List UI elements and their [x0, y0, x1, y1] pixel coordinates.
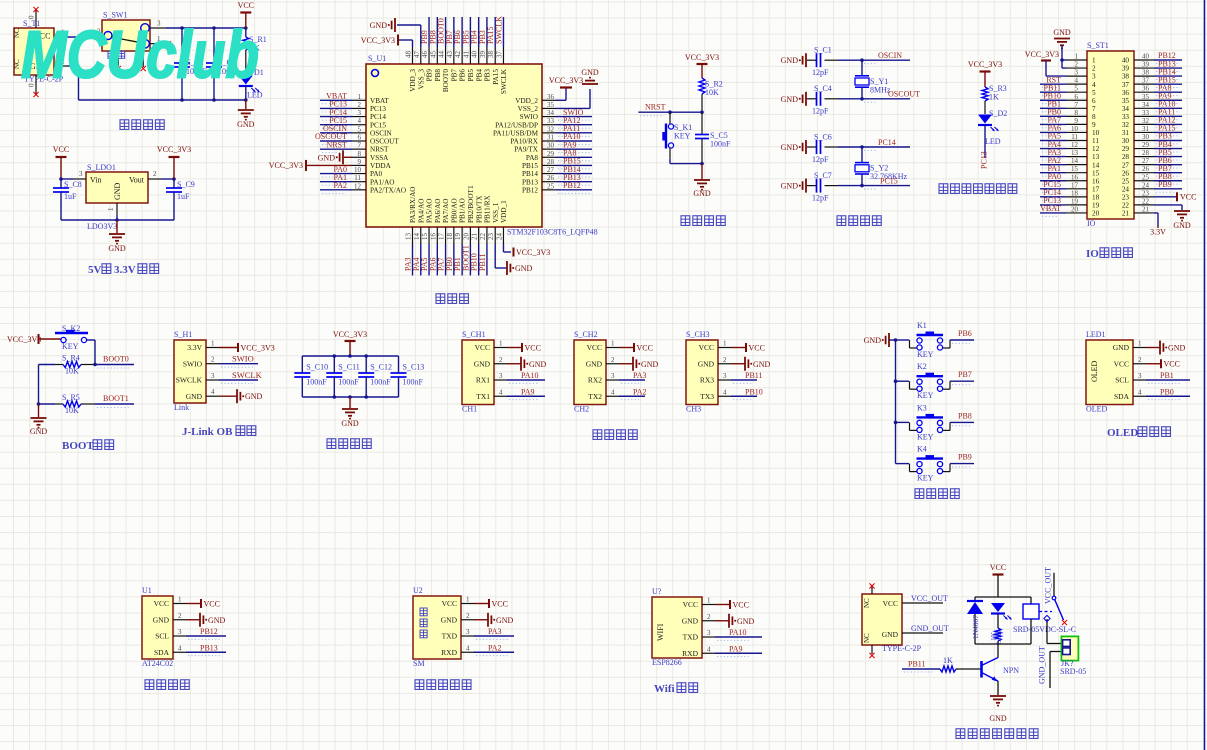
- pin U1 4: [173, 644, 186, 652]
- svg-text:2: 2: [1138, 356, 1142, 364]
- svg-text:SCL: SCL: [155, 632, 169, 641]
- svg-text:38: 38: [487, 51, 495, 59]
- svg-text:6: 6: [358, 134, 362, 142]
- ground GND at U1 pin35 VSS_2: [556, 68, 599, 108]
- pin S_CH3 1: [718, 340, 731, 348]
- svg-text:S_D2: S_D2: [989, 109, 1007, 118]
- svg-text:29: 29: [547, 150, 555, 158]
- svg-text:27: 27: [1122, 161, 1130, 169]
- svg-text:KEY: KEY: [917, 350, 934, 359]
- pin SW1 bottom stubs with no-ERC marks: [116, 51, 146, 71]
- title crystal circuit (jing zhen dian lu): [837, 216, 881, 226]
- svg-text:31: 31: [1142, 125, 1150, 133]
- svg-text:6: 6: [1075, 93, 1079, 101]
- pin ST1 37 right: [1122, 75, 1182, 88]
- wire relay top rail: [975, 596, 1031, 598]
- ground GND LED1 pin1: [1146, 341, 1186, 355]
- pin U1 31 (PA10/RX) right: [510, 132, 592, 145]
- svg-text:K3: K3: [917, 403, 927, 412]
- svg-text:VSS_3: VSS_3: [417, 69, 425, 90]
- svg-text:3: 3: [79, 170, 83, 178]
- svg-text:3: 3: [1138, 372, 1142, 380]
- wire net PB7 key: [950, 370, 974, 384]
- pin S_CH2 1: [606, 340, 619, 348]
- svg-text:PB6: PB6: [459, 69, 467, 82]
- svg-text:13: 13: [1092, 153, 1100, 161]
- svg-text:STM32F103C8T6_LQFP48: STM32F103C8T6_LQFP48: [507, 228, 598, 237]
- svg-text:1uF: 1uF: [64, 192, 77, 201]
- pin ST1 23 right: [1122, 189, 1154, 201]
- pin S_CH2 4: [606, 388, 619, 396]
- pin ST1 18 left: [1040, 188, 1100, 201]
- capacitor C5 100nF: [695, 112, 731, 163]
- svg-text:S_ST1: S_ST1: [1087, 41, 1109, 50]
- svg-text:GND: GND: [737, 617, 755, 626]
- svg-text:14: 14: [413, 233, 421, 241]
- wire JK pin2 GND_OUT trunk: [1050, 652, 1062, 689]
- ground GND header pin22: [1154, 205, 1191, 230]
- title power circuit (dian yuan dian lu): [120, 120, 164, 130]
- svg-text:2: 2: [466, 612, 470, 620]
- svg-text:GND: GND: [113, 182, 122, 200]
- wire reset bottom: [670, 162, 704, 166]
- pin U1 25 (PB12) right: [522, 181, 592, 194]
- svg-text:OSCOUT: OSCOUT: [370, 138, 399, 146]
- svg-text:S_C11: S_C11: [338, 363, 360, 372]
- svg-text:PA11/USB/DM: PA11/USB/DM: [493, 129, 539, 137]
- svg-text:100nF: 100nF: [338, 378, 359, 387]
- pin ST1 21 right: [1122, 205, 1154, 217]
- connector U1 body: [142, 586, 173, 668]
- pin ST1 22 right: [1122, 197, 1154, 209]
- svg-text:GND: GND: [30, 427, 48, 436]
- sheet border right edge: [1204, 0, 1206, 750]
- svg-text:GND: GND: [108, 244, 126, 253]
- svg-text:VCC_3V3: VCC_3V3: [7, 335, 41, 344]
- svg-text:GND: GND: [237, 120, 255, 129]
- ground GND header top: [1053, 28, 1071, 68]
- pin S_CH3 2: [718, 356, 731, 364]
- wire net PB8 key: [950, 411, 974, 425]
- title 5V to 3.3V: [88, 264, 159, 276]
- svg-text:S_CH1: S_CH1: [462, 330, 486, 339]
- svg-text:32: 32: [1122, 121, 1130, 129]
- pin U1 32 (PA11/USB/DM) right: [493, 124, 592, 137]
- svg-text:11: 11: [1071, 133, 1078, 141]
- svg-text:SWCLK: SWCLK: [494, 16, 503, 44]
- svg-text:43: 43: [446, 51, 454, 59]
- power VCC header pin23: [1154, 192, 1196, 201]
- title BOOT circuit: [62, 440, 114, 452]
- power VCC_3V3 at U1 pin9 VDDA: [269, 160, 352, 171]
- pin U1 42 (PB6) top: [453, 17, 467, 81]
- svg-text:SDA: SDA: [154, 648, 170, 657]
- svg-text:15: 15: [1071, 165, 1079, 173]
- pin U1 47 (VSS_3) top: [413, 47, 426, 89]
- svg-text:CH3: CH3: [686, 405, 701, 414]
- svg-text:23: 23: [1122, 193, 1130, 201]
- header ST1 body: [1087, 41, 1134, 228]
- svg-text:36: 36: [1142, 85, 1150, 93]
- svg-text:VCC: VCC: [53, 145, 69, 154]
- svg-text:GND: GND: [186, 392, 203, 401]
- pin T1 bottom stub: [28, 75, 37, 95]
- resistor R5 10K: [39, 393, 96, 415]
- svg-text:39: 39: [479, 51, 487, 59]
- svg-text:PB11: PB11: [478, 254, 487, 272]
- svg-text:5: 5: [1075, 85, 1079, 93]
- pin U1 29 (PA8) right: [526, 148, 592, 161]
- wire net PA2 S_CH2: [619, 387, 647, 399]
- svg-text:PA10: PA10: [521, 371, 539, 380]
- connector T1 (TYPE-C-2P): [13, 19, 65, 84]
- svg-text:4: 4: [211, 388, 215, 396]
- svg-text:10K: 10K: [65, 367, 79, 376]
- svg-text:GND: GND: [153, 615, 170, 624]
- svg-text:5: 5: [1092, 89, 1096, 97]
- pin U1 44 (BOOT0) top: [437, 17, 451, 92]
- svg-text:PB9: PB9: [426, 69, 434, 82]
- resistor base 1K: [940, 656, 982, 672]
- pin ST1 12 left: [1040, 140, 1100, 153]
- svg-text:PA7/AO: PA7/AO: [442, 199, 450, 224]
- capacitor C7 12pF: [807, 171, 862, 202]
- connector S_CH3 body: [686, 330, 718, 414]
- svg-text:3: 3: [611, 372, 615, 380]
- svg-text:RX1: RX1: [476, 376, 490, 385]
- svg-text:22: 22: [479, 233, 487, 241]
- pin ST1 2 left: [1066, 61, 1096, 73]
- svg-text:VCC: VCC: [637, 343, 653, 352]
- svg-text:18: 18: [1092, 193, 1100, 201]
- key K3: [896, 403, 951, 441]
- svg-text:PA8: PA8: [526, 154, 539, 162]
- pin ST1 27 right: [1122, 156, 1182, 169]
- svg-text:PA10/RX: PA10/RX: [510, 138, 539, 146]
- svg-text:13: 13: [405, 233, 413, 241]
- LED D2: [978, 109, 1007, 158]
- svg-text:33: 33: [1142, 109, 1150, 117]
- svg-text:KEY: KEY: [917, 474, 934, 483]
- wire BOOT1 net: [95, 394, 134, 408]
- svg-text:S_C7: S_C7: [814, 171, 832, 180]
- relay switch with dashed actuator: [1039, 573, 1067, 625]
- svg-text:VCC_3V3: VCC_3V3: [241, 343, 275, 352]
- power VCC_3V3 reset: [685, 53, 719, 78]
- pin U1 34 (SWIO) right: [520, 108, 592, 121]
- svg-text:VCC_3V3: VCC_3V3: [157, 145, 191, 154]
- svg-text:VCC_3V3: VCC_3V3: [269, 161, 303, 170]
- capacitor C1 12pF: [807, 46, 862, 77]
- svg-text:32: 32: [1142, 117, 1150, 125]
- power VCC_3V3 indicator: [968, 60, 1002, 87]
- svg-text:4: 4: [723, 388, 727, 396]
- svg-text:39: 39: [1122, 65, 1130, 73]
- net label VCC_OUT vertical: [1044, 567, 1053, 604]
- svg-text:28: 28: [1142, 149, 1150, 157]
- svg-text:10: 10: [1071, 125, 1079, 133]
- pin U1 40 (PB4) top: [470, 17, 484, 81]
- ground GND filter: [341, 397, 359, 428]
- wire SW1 pin3 to VCC node: [166, 26, 248, 30]
- pin ST1 19 left: [1040, 196, 1100, 209]
- svg-text:3: 3: [1075, 69, 1079, 77]
- svg-text:SRD-05: SRD-05: [1060, 667, 1086, 676]
- pin LDO Vin: [61, 170, 86, 179]
- wire SWCLK net jlink: [219, 370, 263, 383]
- svg-text:RX3: RX3: [700, 376, 714, 385]
- svg-text:VCC: VCC: [883, 599, 898, 608]
- svg-text:GND: GND: [1173, 221, 1191, 230]
- svg-text:GND: GND: [318, 153, 336, 162]
- ground GND S_CH1 pin2: [507, 357, 547, 371]
- svg-text:LED1: LED1: [1086, 330, 1106, 339]
- power VCC top: [238, 1, 254, 28]
- pin U1 38 (PA15) top: [486, 17, 500, 85]
- svg-text:OSCOUT: OSCOUT: [888, 90, 920, 99]
- svg-text:SWCLK: SWCLK: [500, 68, 508, 94]
- svg-text:2: 2: [153, 170, 157, 178]
- pin S_CH1 4: [494, 388, 507, 396]
- regulator LDO1 box: [86, 163, 148, 231]
- svg-text:KEY: KEY: [62, 342, 79, 351]
- pin S_CH1 3: [494, 372, 507, 380]
- key K1 reset button: [662, 112, 692, 163]
- svg-text:25: 25: [1142, 173, 1150, 181]
- svg-text:VCC_OUT: VCC_OUT: [1044, 567, 1053, 604]
- svg-text:VCC: VCC: [733, 600, 749, 609]
- ground GND U2 pin2: [474, 613, 514, 627]
- ground GND crystal row PC15: [781, 179, 806, 193]
- svg-text:IO: IO: [1086, 248, 1099, 260]
- wire VCC_OUT net: [902, 594, 948, 603]
- svg-text:24: 24: [1142, 181, 1150, 189]
- capacitor C13 100nF: [391, 356, 425, 397]
- pin U? 1: [702, 597, 715, 605]
- svg-text:GND: GND: [864, 336, 882, 345]
- svg-text:PA6/AO: PA6/AO: [434, 199, 442, 224]
- power VCC S_CH3 pin1: [731, 343, 765, 352]
- svg-text:1: 1: [211, 340, 215, 348]
- pin U1 15 (PA5/AO) bottom: [420, 199, 434, 276]
- svg-text:SDA: SDA: [1114, 392, 1130, 401]
- pin U1 2: [173, 612, 186, 620]
- pin U1 8 (VSSA) left: [352, 150, 389, 162]
- svg-text:4: 4: [178, 644, 182, 652]
- svg-text:36: 36: [547, 93, 555, 101]
- svg-text:45: 45: [429, 51, 437, 59]
- title OLED display: [1107, 427, 1170, 439]
- svg-text:1: 1: [611, 340, 615, 348]
- svg-text:1K: 1K: [989, 93, 999, 102]
- pin U1 1: [173, 596, 186, 604]
- pin U1 12 (PA2/TX/AO) left: [320, 181, 406, 194]
- svg-text:VCC: VCC: [238, 1, 254, 10]
- svg-text:3: 3: [723, 372, 727, 380]
- connector U? body: [652, 587, 702, 667]
- power VCC_3V3 jlink pin1: [219, 343, 275, 352]
- pin ST1 25 right: [1122, 172, 1182, 185]
- svg-text:27: 27: [1142, 157, 1150, 165]
- power VCC S_CH2 pin1: [619, 343, 653, 352]
- svg-text:VCC: VCC: [154, 599, 169, 608]
- svg-text:VCC: VCC: [749, 343, 765, 352]
- svg-text:VCC: VCC: [442, 599, 457, 608]
- pin ST1 8 left: [1040, 108, 1096, 121]
- svg-text:PA3/RX/AO: PA3/RX/AO: [409, 187, 417, 223]
- svg-text:SWCLK: SWCLK: [232, 370, 263, 380]
- connector U2 body: [413, 586, 461, 668]
- svg-text:13: 13: [1071, 149, 1079, 157]
- connector LED1 body: [1086, 330, 1133, 414]
- wire net PA2 U2: [474, 643, 514, 655]
- svg-text:BOOT: BOOT: [62, 440, 94, 452]
- title key circuit (an jian dian lu): [915, 489, 959, 499]
- svg-text:GND: GND: [496, 616, 514, 625]
- wire net PB1 LED1: [1146, 371, 1190, 383]
- svg-text:2: 2: [707, 613, 711, 621]
- svg-text:1K: 1K: [943, 656, 953, 665]
- svg-text:PB12: PB12: [563, 181, 581, 190]
- svg-text:NPN: NPN: [1003, 666, 1019, 675]
- power VCC_3V3 header pin3: [1025, 50, 1066, 76]
- crystal Y2 32.768KHz: [855, 147, 908, 186]
- pin ST1 40 right: [1122, 51, 1182, 64]
- svg-text:VSS_2: VSS_2: [518, 105, 539, 113]
- svg-text:PA1/AO: PA1/AO: [370, 178, 395, 186]
- svg-text:GND: GND: [474, 359, 491, 368]
- capacitor C4 12pF: [807, 84, 862, 115]
- svg-text:GND: GND: [781, 143, 799, 152]
- svg-text:2: 2: [358, 101, 362, 109]
- pin H1 3: [206, 372, 219, 380]
- no-ERC mark T1 top: [33, 7, 38, 12]
- wire net PA10 S_CH1: [507, 371, 545, 383]
- wire GND_OUT net: [902, 624, 949, 633]
- svg-text:3.3V: 3.3V: [114, 264, 136, 276]
- svg-text:TX2: TX2: [588, 392, 602, 401]
- svg-text:1: 1: [499, 340, 503, 348]
- pin ST1 15 left: [1040, 164, 1100, 177]
- power VCC_3V3 filter: [333, 330, 367, 358]
- svg-text:31: 31: [1122, 129, 1130, 137]
- pin U1 48 (VDD_3) top: [405, 47, 418, 92]
- svg-text:3: 3: [499, 372, 503, 380]
- svg-text:VCC_3V3: VCC_3V3: [685, 53, 719, 62]
- pin ST1 38 right: [1122, 67, 1182, 80]
- power VCC U2 pin1: [474, 599, 508, 608]
- pin S_CH2 2: [606, 356, 619, 364]
- wire net PB13 U1: [186, 643, 226, 655]
- pin U1 45 (PB8) top: [428, 17, 442, 81]
- power VCC_3V3 at U1 pin36 VDD_2: [549, 76, 583, 100]
- svg-text:VCC: VCC: [525, 343, 541, 352]
- svg-text:VDDA: VDDA: [370, 162, 392, 170]
- title storage module (cun chu mo kuai): [145, 680, 189, 690]
- svg-text:GND: GND: [1168, 344, 1186, 353]
- svg-text:PB10/TX: PB10/TX: [475, 195, 483, 223]
- svg-text:6: 6: [1092, 97, 1096, 105]
- svg-text:GND: GND: [441, 615, 458, 624]
- svg-text:44: 44: [438, 51, 446, 59]
- svg-text:GND: GND: [781, 95, 799, 104]
- svg-text:1: 1: [723, 340, 727, 348]
- ground GND power circuit: [237, 100, 255, 129]
- pin ST1 7 left: [1040, 100, 1096, 113]
- svg-text:4: 4: [1075, 77, 1079, 85]
- svg-text:5: 5: [358, 125, 362, 133]
- pin U1 30 (PA9/TX) right: [514, 140, 592, 153]
- pin U1 21 (PB10/TX) bottom: [470, 195, 484, 276]
- svg-text:12pF: 12pF: [812, 68, 829, 77]
- pin U1 35 (VSS_2) right: [518, 101, 556, 113]
- pin S_CH2 3: [606, 372, 619, 380]
- pin U1 33 (PA12/USB/DP) right: [495, 116, 592, 129]
- pin ST1 29 right: [1122, 140, 1182, 153]
- svg-text:19: 19: [454, 233, 462, 241]
- pin U1 23 (VSS_1) bottom: [487, 202, 500, 244]
- svg-text:34: 34: [547, 109, 555, 117]
- wire net OSCIN: [860, 51, 910, 64]
- svg-text:OSCIN: OSCIN: [878, 51, 902, 60]
- svg-text:LED: LED: [247, 91, 263, 100]
- svg-text:100nF: 100nF: [710, 140, 731, 149]
- svg-text:24: 24: [1122, 185, 1130, 193]
- svg-text:KEY: KEY: [674, 132, 691, 141]
- pin U1 37 (SWCLK) top: [494, 16, 508, 94]
- ground GND S_CH2 pin2: [619, 357, 659, 371]
- svg-text:3: 3: [1092, 73, 1096, 81]
- svg-text:GND: GND: [989, 714, 1007, 723]
- svg-text:SWIO: SWIO: [232, 354, 254, 364]
- svg-text:VCC: VCC: [587, 343, 602, 352]
- svg-text:S_CH3: S_CH3: [686, 330, 710, 339]
- svg-text:PB11/RX: PB11/RX: [484, 194, 492, 223]
- svg-text:41: 41: [462, 51, 470, 59]
- svg-text:14: 14: [1071, 157, 1079, 165]
- pin U1 41 (PB5) top: [461, 17, 475, 81]
- svg-text:TX3: TX3: [700, 392, 714, 401]
- svg-text:Link: Link: [174, 403, 189, 412]
- key K4: [896, 445, 951, 483]
- svg-text:RXD: RXD: [682, 649, 698, 658]
- svg-text:47: 47: [413, 51, 421, 59]
- svg-text:GND_OUT: GND_OUT: [1038, 646, 1047, 684]
- pin U1 17 (PA7/AO) bottom: [437, 199, 451, 276]
- key K2: [896, 362, 951, 400]
- svg-text:PC14: PC14: [878, 138, 896, 147]
- pin ST1 34 right: [1122, 100, 1182, 113]
- svg-text:GND: GND: [1053, 28, 1071, 37]
- svg-text:PA0: PA0: [370, 170, 383, 178]
- svg-text:12: 12: [354, 182, 362, 190]
- svg-text:32: 32: [547, 125, 555, 133]
- svg-text:PA9: PA9: [729, 644, 743, 653]
- svg-text:NC: NC: [13, 28, 21, 38]
- pin S_CH3 4: [718, 388, 731, 396]
- svg-text:Wifi: Wifi: [654, 683, 675, 695]
- svg-text:PB8: PB8: [434, 69, 442, 82]
- svg-text:CH1: CH1: [462, 405, 477, 414]
- svg-text:LED: LED: [985, 137, 1001, 146]
- label under SW1 (kai guan): [108, 51, 125, 58]
- pin U1 22 (PB11/RX) bottom: [478, 194, 492, 275]
- svg-text:K2: K2: [917, 362, 927, 371]
- svg-text:37: 37: [495, 51, 503, 59]
- svg-text:4: 4: [499, 388, 503, 396]
- wire net PA9 U?: [715, 644, 762, 656]
- title relay control circuit: [956, 729, 1038, 739]
